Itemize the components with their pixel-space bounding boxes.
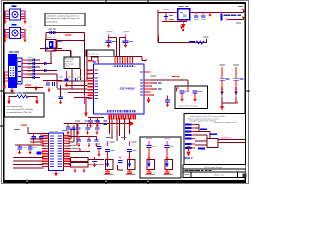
svg-text:Sheet 1 of 1: Sheet 1 of 1 <box>214 174 224 177</box>
svg-text:CS-51 audio Design: CS-51 audio Design <box>204 167 222 169</box>
svg-text:audio-out: audio-out <box>221 137 231 140</box>
svg-text:S3C44B0X: S3C44B0X <box>119 87 134 91</box>
svg-text:used for SDCs low ping: used for SDCs low ping <box>178 104 198 107</box>
svg-text:audio board: audio board <box>47 22 58 24</box>
svg-text:a-c with case: a-c with case <box>88 52 99 55</box>
svg-text:/ the connection R&C should be: / the connection R&C should be <box>7 108 34 111</box>
svg-text:as separated from X-TAL OSC: as separated from X-TAL OSC <box>7 111 33 114</box>
svg-text:time AD coupled on the CS5330: time AD coupled on the CS5330 <box>190 120 216 123</box>
svg-text:test frequency only: test frequency only <box>7 105 23 108</box>
svg-text:the capacitors to define the p: the capacitors to define the page and <box>47 17 80 20</box>
